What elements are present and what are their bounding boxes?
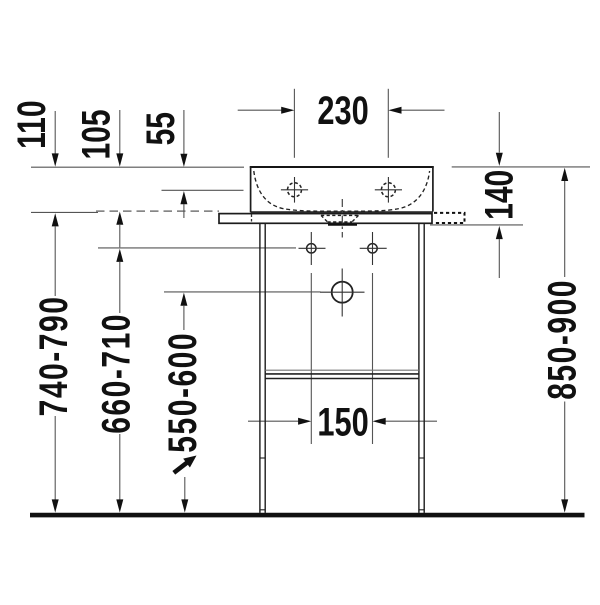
tap hole right [375, 177, 402, 203]
dimension 150 arrows [248, 420, 309, 422]
svg-text:105: 105 [75, 109, 119, 159]
dimension 230 extension lines [293, 89, 295, 158]
console plate [219, 214, 432, 224]
dimension 740-790 line and arrows [52, 213, 59, 226]
dimension 230 arrows [238, 109, 292, 111]
console leg left [260, 223, 265, 513]
wall dashed line [96, 210, 219, 212]
rim top extension line right [452, 166, 590, 168]
svg-text:550-600: 550-600 [161, 332, 205, 453]
svg-text:110: 110 [10, 100, 54, 148]
dimension 55 arrow up [180, 191, 187, 204]
dimension 105 arrow up [116, 212, 123, 225]
dimension 150 extension lines [310, 273, 312, 444]
dimension 55 arrow down [183, 110, 185, 155]
centre line [341, 199, 343, 238]
dimension 550-600 line and arrows [180, 293, 187, 306]
drain axis extension line [164, 291, 321, 293]
dotted plate extension [434, 213, 465, 223]
dimension 850-900 line and arrows [561, 168, 568, 181]
rim top extension line left [31, 166, 244, 168]
towel rail [265, 369, 419, 371]
bold diagonal arrow [174, 461, 190, 473]
drain hole [332, 282, 353, 303]
svg-text:55: 55 [139, 112, 183, 145]
basin bowl hidden curve [254, 171, 430, 211]
svg-text:230: 230 [317, 88, 368, 133]
tap hole left [281, 177, 308, 203]
fixing hole axis extension line [98, 247, 296, 249]
tap hole axis extension line [162, 189, 244, 191]
svg-text:740-790: 740-790 [32, 296, 76, 417]
hidden basin edge in plate [251, 215, 253, 223]
washbasin outline [250, 166, 434, 168]
svg-text:140: 140 [478, 170, 522, 220]
svg-text:660-710: 660-710 [95, 313, 139, 434]
floor line [30, 513, 585, 518]
dimension 140 arrows [498, 112, 500, 153]
waste outlet under plate [328, 224, 357, 226]
dimension 110 arrow down [54, 111, 56, 155]
drain recess hidden lines [321, 215, 359, 222]
dimension 660-710 line and arrows [116, 249, 123, 262]
fixing hole left [307, 244, 316, 253]
svg-text:850-900: 850-900 [541, 279, 585, 400]
console leg right [419, 223, 424, 513]
svg-text:150: 150 [317, 400, 368, 445]
dimension 105 arrow down [119, 110, 121, 155]
fixing hole right [368, 244, 377, 253]
basin underside extension line [31, 211, 98, 213]
